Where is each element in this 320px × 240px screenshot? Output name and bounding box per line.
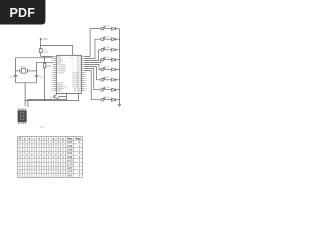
wire diode to rail row 8 xyxy=(116,99,120,101)
wire cap to RST node xyxy=(40,53,42,57)
display DS1 top pins xyxy=(18,109,25,111)
wire LED to diode row 2 xyxy=(104,38,112,40)
wire RST to IC xyxy=(41,56,53,58)
LED D3 xyxy=(101,47,106,51)
wire IC ground drop 2 xyxy=(78,93,80,100)
table row digit 6 xyxy=(19,163,81,166)
svg-text:12: 12 xyxy=(51,78,53,80)
svg-text:28: 28 xyxy=(85,80,87,82)
IC U1 left pin stubs xyxy=(53,57,56,91)
junction dots xyxy=(15,39,120,101)
svg-text:16: 16 xyxy=(51,86,53,88)
wire IC pin to LED row 4 xyxy=(85,60,101,63)
svg-text:27: 27 xyxy=(85,82,87,84)
IC U1 right pin stubs xyxy=(81,57,84,91)
svg-text:30: 30 xyxy=(85,76,87,78)
svg-text:R3 330: R3 330 xyxy=(104,47,110,49)
diode row 5 xyxy=(112,68,116,71)
wire LED to diode row 4 xyxy=(104,59,112,61)
wire IC pin to LED row 8 xyxy=(85,71,101,100)
svg-text:P3.4/T0: P3.4/T0 xyxy=(57,72,64,74)
wire diode to rail row 5 xyxy=(116,69,120,71)
IC U1 body xyxy=(56,55,81,93)
wire VCC vertical xyxy=(40,40,42,48)
svg-text:32: 32 xyxy=(85,72,87,74)
table row digit 9 xyxy=(19,174,81,177)
wire R1 to ground rail xyxy=(44,68,46,101)
wire RST node to resistor R1 xyxy=(44,57,46,64)
node +5V xyxy=(40,38,42,40)
wire diode to rail row 2 xyxy=(116,38,120,40)
table row digit 4 xyxy=(19,156,81,159)
svg-text:0x3F: 0x3F xyxy=(67,141,73,144)
svg-text:0x66: 0x66 xyxy=(67,156,73,159)
wire rail to display pin B xyxy=(24,101,26,107)
IC U1 left pin numbers xyxy=(51,56,53,92)
svg-text:0x7F: 0x7F xyxy=(67,171,73,174)
svg-text:17: 17 xyxy=(51,88,53,90)
wire crystal bottom rail xyxy=(16,82,37,84)
wire C1 to crystal rail xyxy=(15,77,17,83)
wire crystal right leg xyxy=(36,62,38,75)
wire diode to rail row 4 xyxy=(116,59,120,61)
svg-text:0x07: 0x07 xyxy=(67,167,73,170)
capacitor C2 xyxy=(35,75,39,76)
table outer border xyxy=(18,137,83,178)
wire crystal left leg xyxy=(15,58,17,76)
wire IC pin to LED row 3 xyxy=(85,50,101,61)
LED D1 xyxy=(101,26,106,30)
arrowhead into display xyxy=(27,106,29,108)
svg-text:0x06: 0x06 xyxy=(67,145,73,148)
diode row 6 xyxy=(112,78,116,81)
svg-text:Data: Data xyxy=(67,137,73,140)
capacitor C3 xyxy=(39,49,42,53)
wire diode to rail row 6 xyxy=(116,79,120,81)
LED D4 xyxy=(101,57,106,61)
svg-text:13: 13 xyxy=(51,80,53,82)
svg-text:R8 330: R8 330 xyxy=(104,97,110,99)
svg-text:11: 11 xyxy=(51,76,53,78)
LED D7 xyxy=(101,87,106,91)
LED D8 xyxy=(101,97,106,101)
diode row 2 xyxy=(112,38,116,41)
IC U1 right pin numbers xyxy=(85,56,87,92)
wire LED to diode row 5 xyxy=(104,69,112,71)
capacitor C1 xyxy=(14,75,18,76)
svg-text:P2.1/A9: P2.1/A9 xyxy=(74,89,81,92)
display DS1 bottom pins xyxy=(18,122,25,124)
wire bottom rail 2 xyxy=(25,100,79,102)
svg-text:Digit: Digit xyxy=(75,137,81,140)
svg-text:14: 14 xyxy=(51,82,53,84)
wire IC pin to LED row 6 xyxy=(85,67,101,80)
wire C2 to crystal rail xyxy=(36,77,38,83)
wire diode to rail row 1 xyxy=(116,28,120,30)
table row digit 0 xyxy=(19,141,81,144)
wire crystal rail drop xyxy=(24,83,26,101)
diode row 4 xyxy=(112,58,116,61)
wire diode to rail row 7 xyxy=(116,89,120,91)
svg-text:0x5B: 0x5B xyxy=(67,148,73,151)
wire bottom rail 1 xyxy=(28,98,67,100)
IC U1 right pin labels xyxy=(73,56,81,92)
svg-text:N: N xyxy=(19,137,21,140)
table row digit 2 xyxy=(19,148,81,151)
svg-text:31: 31 xyxy=(85,74,87,76)
diode row 3 xyxy=(112,48,116,51)
diode row 8 xyxy=(112,98,116,101)
wire XTAL1 to IC xyxy=(16,57,53,59)
IC U1 left pin labels xyxy=(57,56,67,92)
svg-text:0x4F: 0x4F xyxy=(67,152,73,155)
wire VCC branch to IC top xyxy=(41,46,73,56)
PDF badge xyxy=(0,0,45,25)
label C3 value 10uF xyxy=(37,48,50,53)
table header row xyxy=(19,137,81,140)
svg-text:4MHz: 4MHz xyxy=(20,66,26,68)
table grid xyxy=(18,137,83,178)
svg-text:18: 18 xyxy=(51,90,53,92)
svg-text:0x6D: 0x6D xyxy=(67,160,73,163)
svg-text:0x6F: 0x6F xyxy=(67,174,73,177)
svg-text:26: 26 xyxy=(85,84,87,86)
transistor Q1 xyxy=(53,94,67,99)
svg-text:PDF: PDF xyxy=(9,6,35,20)
svg-text:+5V: +5V xyxy=(42,37,47,41)
LED D6 xyxy=(101,77,106,81)
wire LED to diode row 7 xyxy=(104,89,112,91)
wire IC pin to LED row 7 xyxy=(85,69,101,90)
table row digit 1 xyxy=(19,145,81,148)
table row digit 5 xyxy=(19,160,81,163)
wire XTAL2 to IC xyxy=(37,61,53,63)
diode row 1 xyxy=(112,27,116,30)
wire rail to display pin A xyxy=(27,99,29,105)
svg-text:24: 24 xyxy=(85,88,87,90)
svg-text:GND: GND xyxy=(57,90,62,92)
wire crystal stub right xyxy=(27,70,36,72)
diode row 7 xyxy=(112,88,116,91)
display DS1 body xyxy=(18,111,27,123)
wire IC pin to LED row 2 xyxy=(85,39,101,58)
svg-text:10: 10 xyxy=(51,74,53,76)
wire IC pin to LED row 5 xyxy=(85,65,101,70)
resistor R1 xyxy=(44,63,46,68)
table row digit 3 xyxy=(19,152,81,155)
wire LED to diode row 6 xyxy=(104,79,112,81)
LED D2 xyxy=(101,37,106,41)
svg-text:R2 330: R2 330 xyxy=(104,36,110,38)
svg-text:10uF: 10uF xyxy=(44,52,50,54)
wire IC ground drop 1 xyxy=(66,93,68,99)
svg-text:R4 330: R4 330 xyxy=(104,57,110,59)
svg-text:f: f xyxy=(48,137,49,140)
ground symbol right rail xyxy=(118,104,121,106)
svg-text:25: 25 xyxy=(85,86,87,88)
svg-text:R6 330: R6 330 xyxy=(104,77,110,79)
svg-text:29: 29 xyxy=(85,78,87,80)
LED D5 xyxy=(101,67,106,71)
wire crystal stub left xyxy=(16,70,20,72)
svg-text:R1 330: R1 330 xyxy=(104,26,110,28)
wire LED to diode row 1 xyxy=(104,28,112,30)
crystal X1 xyxy=(20,69,28,74)
table row digit 7 xyxy=(19,167,81,170)
svg-text:15: 15 xyxy=(51,84,53,86)
display DS1 digit 8 segments xyxy=(20,112,24,120)
wire diode to rail row 3 xyxy=(116,49,120,51)
wire IC pin to LED row 1 xyxy=(85,29,101,57)
wire LED to diode row 3 xyxy=(104,49,112,51)
table row digit 8 xyxy=(19,171,81,174)
svg-text:23: 23 xyxy=(85,90,87,92)
wire LED right rail xyxy=(118,29,120,105)
wire LED to diode row 8 xyxy=(104,99,112,101)
svg-text:R5 330: R5 330 xyxy=(104,67,110,69)
svg-text:R7 330: R7 330 xyxy=(104,87,110,89)
svg-text:0x7D: 0x7D xyxy=(67,163,73,166)
